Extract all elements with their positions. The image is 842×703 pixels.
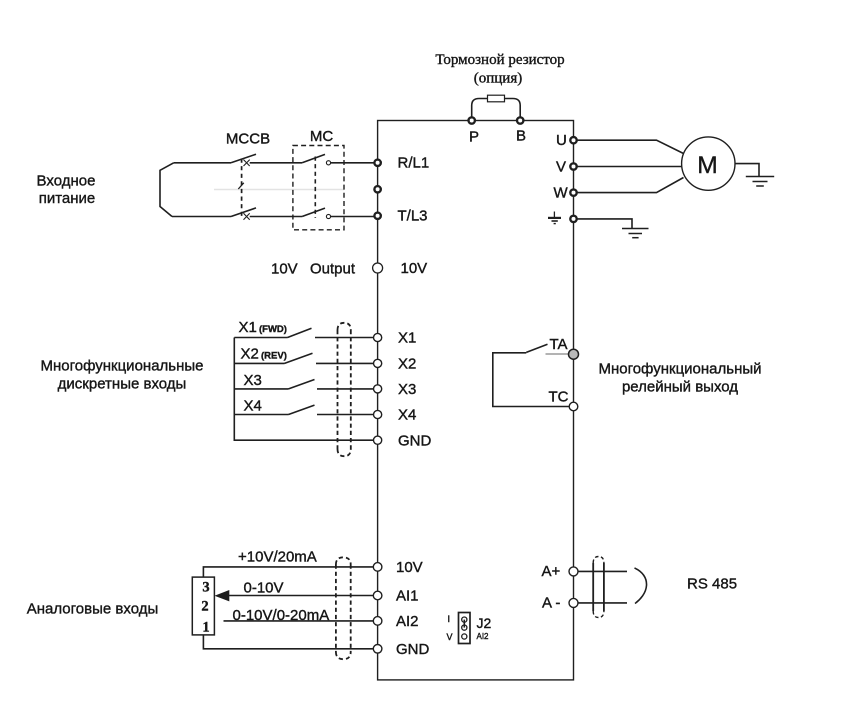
switch X3 wire xyxy=(234,388,373,390)
svg-text:X3: X3 xyxy=(244,372,262,389)
svg-text:U: U xyxy=(556,132,567,149)
wire MCCB to MC top xyxy=(250,162,302,164)
switch X4 wire xyxy=(234,414,373,416)
svg-text:RS 485: RS 485 xyxy=(687,576,737,593)
wire MCCB to MC bottom xyxy=(250,216,302,218)
svg-text:AI2: AI2 xyxy=(396,613,419,630)
ground PE symbol label xyxy=(548,212,561,224)
jumper J2 pin3 xyxy=(462,634,467,639)
wire PE to earth xyxy=(577,219,632,229)
svg-text:B: B xyxy=(516,128,526,145)
shield of analog cable (dashed) xyxy=(336,557,351,659)
svg-text:10V: 10V xyxy=(271,261,298,278)
svg-text:X1: X1 xyxy=(398,330,416,347)
svg-text:X2: X2 xyxy=(241,346,259,363)
terminal PE xyxy=(570,216,576,222)
svg-text:P: P xyxy=(469,129,479,146)
wire +10V supply xyxy=(203,567,373,577)
breaker MCCB pole 2 blade xyxy=(231,208,256,217)
contactor MC pole 2 contact circle xyxy=(326,214,330,218)
svg-text:AI1: AI1 xyxy=(396,588,419,605)
wire A- xyxy=(578,602,627,604)
svg-text:V: V xyxy=(556,159,566,176)
label Входное питание xyxy=(37,173,96,208)
terminal A- xyxy=(569,598,578,607)
jumper J2 pin2 xyxy=(462,625,467,630)
terminal X3 xyxy=(374,385,382,393)
twisted pair symbol xyxy=(635,568,647,604)
resistor RB xyxy=(488,95,505,102)
contactor MC link dashed xyxy=(314,157,316,219)
svg-text:I: I xyxy=(448,614,451,624)
terminal 10V power xyxy=(373,263,383,273)
wire AI2 xyxy=(224,620,374,622)
svg-text:Многофункциональные: Многофункциональные xyxy=(40,358,203,375)
svg-text:10V: 10V xyxy=(396,559,423,576)
terminal V xyxy=(570,163,576,169)
svg-text:релейный выход: релейный выход xyxy=(622,379,738,396)
svg-text:(REV): (REV) xyxy=(261,351,287,362)
svg-text:Тормозной резистор: Тормозной резистор xyxy=(435,52,564,68)
breaker MCCB mechanical link (dashed) xyxy=(241,159,243,218)
svg-text:0-10V: 0-10V xyxy=(244,580,284,597)
wire input phase T left xyxy=(172,216,231,218)
ghost wire S/L2 (erased) xyxy=(214,189,344,191)
contactor MC pole 2 blade xyxy=(302,208,325,216)
svg-text:X1: X1 xyxy=(239,319,257,336)
label Многофункциональные дискретные входы xyxy=(40,358,203,393)
switch X2 wire xyxy=(234,362,373,364)
terminal P xyxy=(469,117,475,123)
terminal GND digital xyxy=(374,436,382,444)
terminal X4 xyxy=(374,410,382,418)
svg-text:X4: X4 xyxy=(244,398,262,415)
svg-text:+10V/20mA: +10V/20mA xyxy=(238,549,317,566)
terminal B xyxy=(517,117,523,123)
wire A+ xyxy=(578,570,627,572)
svg-text:2: 2 xyxy=(201,599,208,615)
terminal A+ xyxy=(569,567,578,576)
svg-text:A+: A+ xyxy=(542,563,561,580)
svg-text:10V: 10V xyxy=(401,260,428,277)
svg-text:GND: GND xyxy=(398,433,432,450)
svg-text:MC: MC xyxy=(310,128,333,145)
terminal S/L2 unused xyxy=(374,186,380,192)
terminal W xyxy=(570,189,576,195)
svg-text:GND: GND xyxy=(396,641,430,658)
ground motor earth xyxy=(746,177,774,187)
svg-text:Аналоговые входы: Аналоговые входы xyxy=(27,601,158,618)
wire V output xyxy=(577,166,681,168)
svg-text:дискретные входы: дискретные входы xyxy=(58,376,187,393)
svg-text:J2: J2 xyxy=(477,615,492,631)
jumper J2 block xyxy=(459,613,471,644)
svg-text:R/L1: R/L1 xyxy=(398,155,430,172)
relay loop wire xyxy=(493,353,570,407)
svg-text:T/L3: T/L3 xyxy=(398,208,428,225)
wire W output xyxy=(577,178,683,193)
shield of discrete input cable (dashed) xyxy=(338,323,351,456)
svg-text:Входное: Входное xyxy=(37,173,96,190)
terminal 10V analog xyxy=(373,563,382,572)
wire motor to earth xyxy=(735,164,759,177)
terminal T/L3 xyxy=(374,213,380,219)
wire MC to R/L1 xyxy=(331,162,374,164)
wire U output xyxy=(577,140,683,153)
svg-text:питание: питание xyxy=(39,190,96,207)
terminal X1 xyxy=(374,333,382,341)
wire MC to T/L3 xyxy=(331,216,374,218)
svg-text:MCCB: MCCB xyxy=(226,131,270,148)
breaker MCCB pole 1 contact x xyxy=(244,160,250,166)
switch X1 wire xyxy=(234,337,373,339)
label X1 (FWD) xyxy=(239,319,287,336)
svg-text:W: W xyxy=(554,185,569,202)
input bracket xyxy=(160,163,174,217)
switch X3 blade xyxy=(289,380,315,389)
svg-text:(FWD): (FWD) xyxy=(259,324,287,335)
terminal GND analog xyxy=(373,645,382,654)
svg-text:X3: X3 xyxy=(398,381,416,398)
breaker MCCB pole 1 blade xyxy=(231,154,256,163)
svg-text:TA: TA xyxy=(550,336,568,353)
arrow AI1 head xyxy=(215,590,230,601)
inverter main box U1 xyxy=(378,121,574,680)
jumper J2 cap link xyxy=(463,620,465,628)
relay wire TA stub xyxy=(546,353,570,355)
svg-text:(опция): (опция) xyxy=(474,71,522,87)
terminal U xyxy=(570,137,576,143)
wire AI1 with arrow xyxy=(229,595,373,597)
motor M1 xyxy=(682,137,735,190)
contactor MC pole 1 blade xyxy=(302,154,325,162)
svg-text:TC: TC xyxy=(549,389,569,406)
terminal X2 xyxy=(374,359,382,367)
switch X1 blade xyxy=(288,328,312,337)
braking resistor loop wire xyxy=(472,99,521,117)
label X2 (REV) xyxy=(241,346,287,363)
svg-text:M: M xyxy=(697,152,717,179)
svg-text:V: V xyxy=(447,632,453,642)
contactor MC pole 1 contact circle xyxy=(326,161,330,165)
contactor MC dashed box xyxy=(293,146,344,230)
shield of RS485 cable xyxy=(593,557,604,618)
svg-text:X2: X2 xyxy=(398,356,416,373)
label Многофункциональный релейный выход xyxy=(598,361,761,396)
wire input phase R left xyxy=(174,162,231,164)
breaker MCCB pole 2 contact x xyxy=(244,213,250,219)
terminal TA xyxy=(569,349,579,359)
switch X4 blade xyxy=(289,405,315,414)
relay contact blade xyxy=(526,344,547,352)
breaker MCCB link tick xyxy=(238,183,244,189)
terminal R/L1 xyxy=(374,160,380,166)
switch X2 blade xyxy=(285,353,313,363)
svg-text:X4: X4 xyxy=(398,407,416,424)
svg-text:A -: A - xyxy=(542,595,560,612)
analog terminal block xyxy=(192,577,214,635)
svg-text:Многофункциональный: Многофункциональный xyxy=(598,361,761,378)
ground PE earth xyxy=(622,229,649,238)
svg-text:1: 1 xyxy=(202,620,209,636)
svg-text:AI2: AI2 xyxy=(477,632,490,641)
svg-text:Output: Output xyxy=(310,261,356,278)
svg-text:3: 3 xyxy=(202,580,209,596)
jumper J2 pin1 xyxy=(462,617,467,622)
discrete input bus xyxy=(234,338,373,441)
terminal AI1 xyxy=(373,591,382,600)
terminal AI2 xyxy=(373,617,382,626)
label Тормозной резистор (опция) xyxy=(435,52,564,87)
wire analog GND xyxy=(203,635,373,649)
terminal TC xyxy=(569,402,578,411)
